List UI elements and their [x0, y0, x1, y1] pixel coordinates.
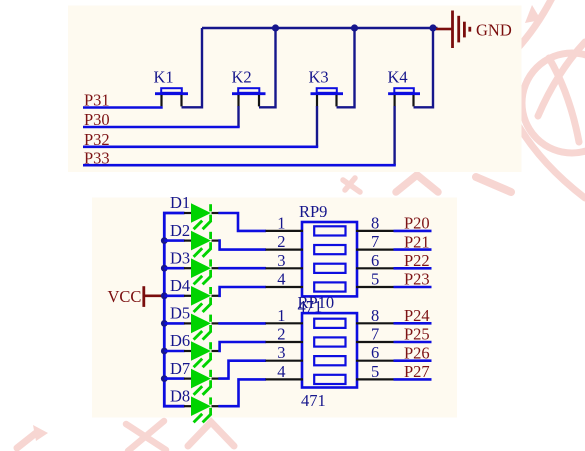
- pin 3 left of RP9: [266, 267, 304, 269]
- junction rail D2: [161, 237, 168, 244]
- pin 2 left of RP10: [266, 341, 304, 343]
- svg-text:P30: P30: [84, 110, 110, 129]
- svg-text:2: 2: [277, 232, 285, 251]
- svg-text:P20: P20: [404, 214, 430, 233]
- pin 8 right of RP9: [356, 230, 394, 232]
- svg-text:P33: P33: [84, 148, 110, 167]
- watermark chevron 1 (gap between schematic pieces): [396, 175, 438, 192]
- wire K4 right leg to rail: [414, 28, 434, 107]
- svg-text:P26: P26: [404, 343, 430, 362]
- schematic sheet piece B (LEDs): [92, 198, 457, 418]
- junction K4 on rail: [429, 24, 436, 31]
- watermark globe logo top right: [514, 0, 585, 198]
- junction rail D3: [161, 265, 168, 272]
- svg-text:P23: P23: [404, 270, 430, 289]
- svg-text:P31: P31: [84, 91, 110, 110]
- wire D6 to RP pin: [218, 342, 266, 351]
- LED D3: [184, 259, 219, 284]
- wire D5 to RP pin: [218, 322, 266, 325]
- svg-text:VCC: VCC: [108, 287, 142, 306]
- wire net P27: [394, 378, 432, 381]
- wire K2 right leg to rail: [259, 28, 276, 107]
- svg-text:471: 471: [301, 391, 326, 410]
- wire rail to D7: [164, 377, 184, 380]
- wire K4 left leg riser: [393, 106, 395, 165]
- power VCC symbol: [144, 286, 163, 307]
- svg-text:8: 8: [371, 306, 379, 325]
- svg-text:6: 6: [371, 251, 379, 270]
- pin 6 right of RP10: [356, 360, 394, 362]
- wire net P23: [394, 286, 432, 289]
- wire K2 left leg riser: [237, 106, 239, 127]
- svg-text:D3: D3: [170, 248, 190, 267]
- svg-text:1: 1: [277, 306, 285, 325]
- svg-text:P24: P24: [404, 306, 430, 325]
- watermark small x mark (gap): [343, 178, 360, 192]
- wire K1 right leg to rail: [182, 28, 203, 107]
- wire net P30: [83, 126, 240, 129]
- svg-text:P21: P21: [404, 232, 430, 251]
- wire rail to D6: [164, 350, 184, 353]
- pin 7 right of RP9: [356, 249, 394, 251]
- wire net P33: [83, 164, 396, 167]
- svg-text:D8: D8: [170, 386, 190, 405]
- pin 7 right of RP10: [356, 341, 394, 343]
- svg-text:5: 5: [371, 270, 379, 289]
- wire D7 to RP pin: [218, 361, 266, 379]
- svg-text:5: 5: [371, 362, 379, 381]
- pin 4 left of RP10: [266, 378, 304, 380]
- svg-text:3: 3: [277, 343, 285, 362]
- watermark diagonal stroke (gap, right): [476, 177, 511, 192]
- svg-text:K4: K4: [388, 68, 408, 87]
- svg-text:RP9: RP9: [299, 202, 327, 221]
- wire D8 to RP pin: [218, 379, 266, 406]
- resistor pack RP10: [302, 313, 357, 387]
- LED D7: [184, 370, 219, 395]
- svg-text:D5: D5: [170, 304, 190, 323]
- LED D4: [184, 287, 219, 312]
- junction K3 on rail: [351, 24, 358, 31]
- pin 8 right of RP10: [356, 322, 394, 324]
- junction rail D7: [161, 375, 168, 382]
- svg-text:D2: D2: [170, 221, 190, 240]
- svg-text:8: 8: [371, 213, 379, 232]
- LED D2: [184, 232, 219, 257]
- svg-text:GND: GND: [476, 20, 512, 39]
- wire net P25: [394, 341, 432, 344]
- LED D6: [184, 342, 219, 367]
- wire VCC rail: [164, 213, 184, 406]
- wire D3 to RP pin: [218, 267, 266, 270]
- wire stub to GND: [436, 28, 452, 31]
- wire rail to D3: [164, 267, 184, 270]
- wire net P21: [394, 248, 432, 251]
- wire D2 to RP pin: [218, 241, 266, 250]
- watermark chevron bottom middle: [188, 422, 234, 446]
- key switch K3: [311, 88, 344, 106]
- wire net P31: [83, 106, 163, 109]
- wire net P20: [394, 230, 432, 233]
- svg-text:1: 1: [277, 213, 285, 232]
- pin 3 left of RP10: [266, 360, 304, 362]
- wire rail to D2: [164, 239, 184, 242]
- LED D5: [184, 314, 219, 339]
- svg-text:6: 6: [371, 343, 379, 362]
- wire rail to D4: [164, 294, 184, 297]
- wire net P32: [83, 146, 318, 149]
- svg-text:4: 4: [277, 362, 285, 381]
- svg-text:K2: K2: [232, 68, 252, 87]
- wire net P26: [394, 359, 432, 362]
- wire top GND rail: [202, 27, 438, 29]
- pin 1 left of RP10: [266, 322, 304, 324]
- watermark X bottom: [126, 421, 166, 451]
- pin 5 right of RP10: [356, 378, 394, 380]
- svg-text:7: 7: [371, 325, 379, 344]
- svg-text:2: 2: [277, 325, 285, 344]
- pin 1 left of RP9: [266, 230, 304, 232]
- pin 5 right of RP9: [356, 286, 394, 288]
- wire K3 left leg riser: [316, 106, 318, 147]
- ground GND symbol: [453, 11, 470, 49]
- wire D1 to RP pin: [218, 213, 266, 231]
- svg-text:7: 7: [371, 232, 379, 251]
- junction rail D6: [161, 348, 168, 355]
- wire D4 to RP pin: [218, 287, 266, 296]
- svg-text:D1: D1: [170, 193, 190, 212]
- svg-text:RP10: RP10: [298, 293, 335, 312]
- junction rail D5: [161, 320, 168, 327]
- junction rail D4: [161, 292, 168, 299]
- resistor pack RP9: [302, 222, 357, 296]
- pin 2 left of RP9: [266, 249, 304, 251]
- svg-text:D7: D7: [170, 359, 190, 378]
- svg-text:K1: K1: [154, 68, 174, 87]
- junction K2 on rail: [272, 24, 279, 31]
- wire K3 right leg to rail: [337, 28, 355, 107]
- watermark arrowhead top right: [525, 5, 541, 23]
- watermark arrow bottom left: [17, 433, 36, 448]
- svg-text:3: 3: [277, 251, 285, 270]
- svg-text:P25: P25: [404, 325, 430, 344]
- LED D8: [184, 397, 219, 422]
- wire rail to D5: [164, 322, 184, 325]
- svg-text:P32: P32: [84, 130, 110, 149]
- wire net P22: [394, 267, 432, 270]
- wire net P24: [394, 322, 432, 325]
- key switch K4: [388, 88, 420, 106]
- pin 6 right of RP9: [356, 267, 394, 269]
- svg-text:P22: P22: [404, 251, 430, 270]
- svg-text:D4: D4: [170, 276, 190, 295]
- svg-text:D6: D6: [170, 331, 190, 350]
- key switch K2: [232, 88, 266, 106]
- key switch K1: [155, 88, 188, 106]
- LED D1: [184, 204, 219, 229]
- pin 4 left of RP9: [266, 286, 304, 288]
- svg-text:K3: K3: [309, 68, 329, 87]
- svg-text:4: 4: [277, 270, 285, 289]
- svg-text:P27: P27: [404, 362, 430, 381]
- schematic sheet piece A (keys): [68, 6, 522, 173]
